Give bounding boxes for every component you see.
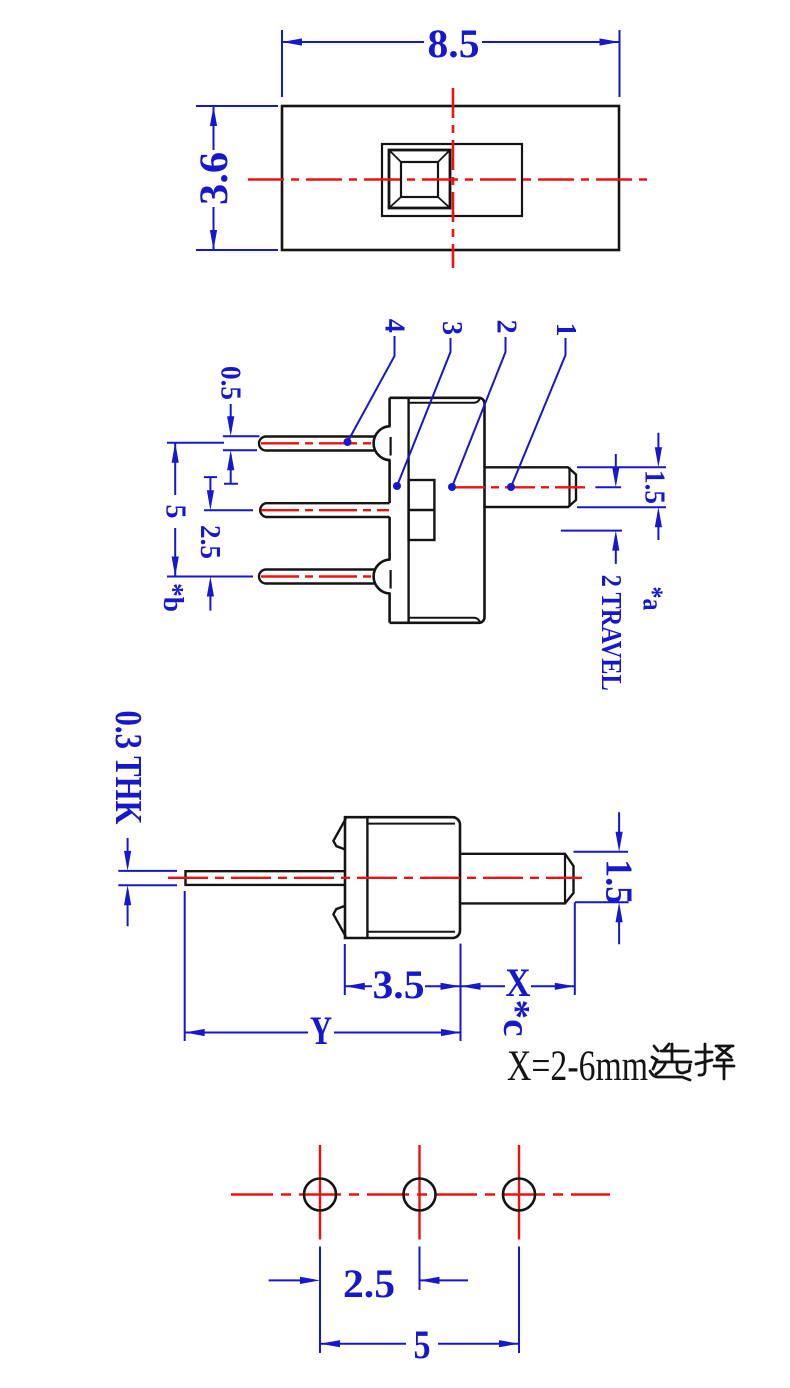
- svg-text:*a: *a: [637, 587, 668, 611]
- pad hole 2: [404, 1179, 436, 1211]
- dim Y arrowheads: [185, 1029, 205, 1036]
- dim 1.5 arrow lines view2: [657, 433, 659, 540]
- pin 3 view2: [259, 570, 375, 584]
- pin3 centerline view2: [261, 575, 375, 577]
- dim 2.5 extension tick pin2: [204, 509, 253, 511]
- svg-text:0.5: 0.5: [215, 366, 246, 400]
- dim Y line: [185, 1032, 461, 1034]
- dim 3.6 extension lines: [196, 106, 278, 250]
- switch body outline view2: [390, 398, 485, 623]
- svg-text:3: 3: [436, 321, 467, 335]
- detent block divider: [409, 509, 435, 511]
- footprint centerline horizontal: [231, 1193, 610, 1195]
- leader dot 3: [393, 482, 401, 490]
- dim 8.5 extension lines: [282, 30, 620, 97]
- svg-text:3.5: 3.5: [373, 962, 425, 1007]
- knob bevel lines: [389, 150, 450, 208]
- pin3 boss slot edge: [390, 570, 392, 589]
- leader dot 2: [448, 483, 456, 491]
- knob outer square: [389, 150, 450, 208]
- dim 5 arrowheads view4: [320, 1340, 340, 1347]
- vertical centerline: [452, 88, 455, 268]
- leader dot 4: [344, 438, 352, 446]
- svg-text:*c: *c: [495, 1000, 537, 1037]
- dim 0.5 arrowheads: [227, 416, 234, 436]
- pin view3: [186, 871, 346, 885]
- dim X arrowheads: [461, 983, 481, 990]
- pad crosshair 2: [418, 1145, 420, 1240]
- dim 2.5 bottom arrow line: [209, 582, 211, 611]
- leader dot 1: [507, 483, 515, 491]
- actuator view3: [460, 854, 574, 904]
- svg-text:X: X: [506, 960, 531, 1005]
- dim 2.5 top arrow line: [204, 477, 217, 505]
- svg-text:X=2-6mm: X=2-6mm: [507, 1043, 648, 1090]
- dim 5 line view4: [320, 1343, 519, 1345]
- dim 3.5 arrowheads: [345, 983, 365, 990]
- dim 2.5 arrowheads view4: [300, 1277, 320, 1284]
- pad crosshair 1: [319, 1145, 321, 1240]
- svg-text:0.3 THK: 0.3 THK: [107, 711, 149, 825]
- dim 0.3 arrow lines: [127, 838, 129, 926]
- bottom hook tab view3: [333, 906, 346, 937]
- pad hole 3: [503, 1179, 535, 1211]
- body bottom seam view3: [367, 931, 455, 933]
- dim 0.3 arrowheads: [124, 851, 131, 871]
- leader line 3: [397, 338, 451, 486]
- actuator chamfer plane view2: [568, 467, 570, 507]
- pin1 boss view2: [374, 426, 391, 460]
- top view body outline: [282, 106, 619, 250]
- actuator chamfer plane view3: [564, 854, 566, 904]
- pin1 centerline view2: [261, 442, 375, 444]
- plate boundary view3: [366, 817, 368, 938]
- dim 3.5 / Y left ext lines: [185, 891, 345, 1041]
- svg-text:2: 2: [491, 320, 522, 334]
- dim 2.5 arrowheads: [207, 490, 214, 510]
- travel ref line bottom: [561, 530, 622, 532]
- hanzi xuan (选): [650, 1044, 691, 1080]
- dim 1.5 arrow lines view3: [618, 812, 620, 944]
- dim X line: [461, 985, 575, 987]
- svg-text:1.5: 1.5: [639, 470, 670, 504]
- detent block view2: [409, 480, 435, 540]
- svg-text:2.5: 2.5: [343, 1261, 395, 1306]
- dim 1.5 arrowheads view2: [655, 447, 662, 467]
- dim 3.6 line: [213, 106, 215, 250]
- horizontal centerline: [248, 178, 653, 181]
- svg-text:*b: *b: [157, 583, 188, 612]
- svg-text:2 TRAVEL: 2 TRAVEL: [595, 575, 626, 691]
- svg-text:3.6: 3.6: [191, 152, 236, 205]
- dim 0.5 ticks: [223, 436, 260, 450]
- footprint ext lines: [320, 1247, 519, 1354]
- pin3 boss view2: [374, 560, 391, 594]
- svg-text:1.5: 1.5: [598, 859, 640, 904]
- pin2 centerline view2: [261, 509, 389, 511]
- dim 3.6 arrows: [210, 106, 217, 126]
- body top seam view2: [409, 398, 480, 403]
- dim 2.5 arrow lines view4: [269, 1279, 468, 1281]
- dim 1.5 ext lines view3: [574, 852, 629, 903]
- side body outline view3: [345, 817, 460, 938]
- slider slot: [382, 144, 522, 216]
- pad hole 1: [304, 1179, 336, 1211]
- leader line 2: [452, 337, 506, 487]
- dim 5 line: [174, 443, 176, 577]
- svg-text:Y: Y: [310, 1008, 332, 1053]
- pin 1 view2: [259, 437, 375, 451]
- plate left edge segments view2: [388, 398, 391, 623]
- pin1 boss slot edge: [390, 437, 392, 456]
- leader line 1: [511, 338, 566, 487]
- svg-text:5: 5: [160, 505, 191, 519]
- dim 5 extension lines: [167, 443, 253, 577]
- body bottom seam view2: [409, 618, 480, 623]
- plate/body boundary line view2: [407, 398, 409, 623]
- dim 3.5 line: [345, 985, 461, 987]
- svg-text:8.5: 8.5: [428, 21, 480, 66]
- actuator view2: [485, 467, 577, 507]
- svg-text:5: 5: [414, 1322, 431, 1367]
- svg-text:4: 4: [379, 319, 410, 333]
- svg-text:1: 1: [550, 323, 581, 337]
- centerline view3: [168, 877, 582, 879]
- dim 8.5 line: [282, 41, 620, 43]
- dim 1.5 arrowheads view3: [616, 832, 623, 852]
- dim 1.5 ext lines view2: [577, 467, 666, 507]
- actuator centerline view2: [455, 486, 591, 488]
- dim 5 arrowheads: [172, 443, 179, 463]
- leader line 4: [348, 336, 395, 442]
- dim 0.5 arrow lines: [224, 404, 238, 484]
- knob inner square: [401, 162, 438, 197]
- travel arrowheads: [612, 467, 619, 487]
- svg-text:2.5: 2.5: [194, 525, 225, 559]
- shared ext line body right: [460, 944, 462, 1041]
- travel ref line top: [595, 486, 621, 488]
- pin 2 view2: [260, 503, 389, 517]
- hanzi ze (择): [696, 1044, 734, 1079]
- body top seam view3: [367, 823, 455, 825]
- top hook tab view3: [333, 818, 346, 849]
- dim 8.5 arrows: [282, 38, 302, 45]
- pad crosshair 3: [518, 1145, 520, 1240]
- dim 0.3 ticks: [118, 871, 177, 885]
- travel arrow lines: [615, 454, 617, 564]
- dim X right ext line: [574, 902, 576, 995]
